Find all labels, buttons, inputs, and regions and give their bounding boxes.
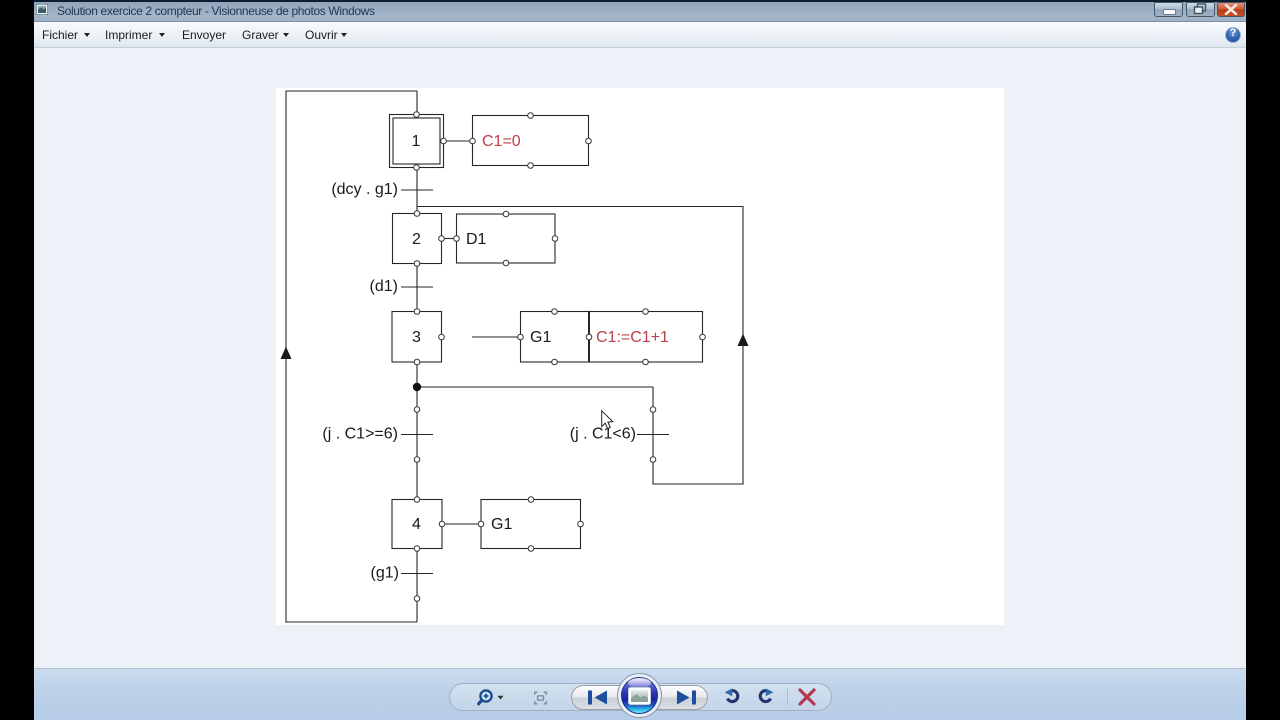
svg-text:G1: G1 [530,329,551,346]
svg-text:(g1): (g1) [371,565,399,582]
svg-text:3: 3 [412,329,421,346]
svg-text:4: 4 [412,516,421,533]
svg-text:G1: G1 [491,516,512,533]
svg-text:C1:=C1+1: C1:=C1+1 [596,329,669,346]
svg-text:(d1): (d1) [370,278,398,295]
svg-text:(dcy . g1): (dcy . g1) [331,181,398,198]
svg-text:1: 1 [412,133,421,150]
svg-text:(j . C1>=6): (j . C1>=6) [322,426,398,443]
svg-text:2: 2 [412,231,421,248]
svg-text:(j . C1<6): (j . C1<6) [570,426,636,443]
svg-text:D1: D1 [466,231,487,248]
svg-text:C1=0: C1=0 [482,133,521,150]
